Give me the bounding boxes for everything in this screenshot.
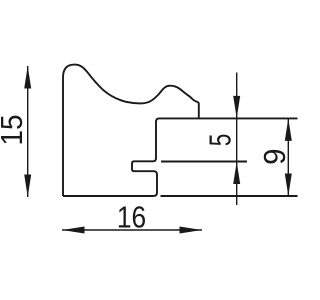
wire: moulding profile ornate outline (left edge, ogee top, right face) xyxy=(63,65,199,196)
node: arrowhead 16 left xyxy=(62,227,85,234)
node: arrowhead 15 top xyxy=(24,66,31,89)
svg-text:16: 16 xyxy=(117,201,146,235)
wire: dimension line 9 xyxy=(287,118,289,196)
node: arrowhead 15 bottom xyxy=(24,175,31,198)
wire: dimension line 16 xyxy=(62,229,202,231)
node: arrowhead 5 upper (points down) xyxy=(233,96,240,119)
wire: strip bottom edge xyxy=(161,195,298,197)
node: arrowhead 5 lower (points up) xyxy=(233,162,240,185)
svg-text:9: 9 xyxy=(258,149,292,165)
node: arrowhead 9 top (points up) xyxy=(285,118,292,140)
svg-text:5: 5 xyxy=(202,134,237,147)
wire: moulding bottom edge, groove slot and rabbet top edge xyxy=(63,118,298,196)
node: arrowhead 16 right xyxy=(180,227,203,234)
node: arrowhead 9 bottom (points down) xyxy=(285,174,292,197)
wire: dimension line 15 xyxy=(27,66,29,197)
wire: strip middle edge xyxy=(161,161,247,163)
svg-text:15: 15 xyxy=(0,114,29,145)
wire: dimension line 5 xyxy=(236,73,238,206)
